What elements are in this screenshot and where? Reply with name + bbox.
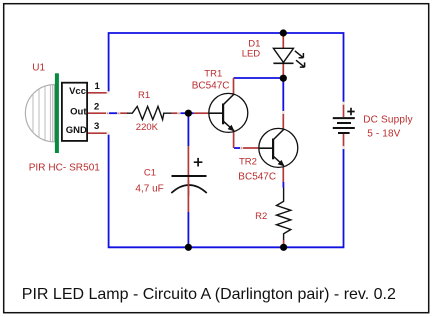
svg-text:1: 1 [95,81,101,92]
svg-text:GND: GND [66,125,87,136]
svg-text:5 - 18V: 5 - 18V [367,129,400,140]
svg-text:Vcc: Vcc [69,86,86,97]
svg-text:PIR HC- SR501: PIR HC- SR501 [29,163,101,174]
svg-text:Out: Out [70,107,87,118]
svg-text:U1: U1 [32,62,45,73]
svg-text:C1: C1 [144,168,156,179]
svg-text:LED: LED [242,48,261,59]
svg-text:TR1: TR1 [204,69,222,80]
svg-text:BC547C: BC547C [238,172,276,183]
svg-text:BC547C: BC547C [192,80,230,91]
svg-text:2: 2 [94,101,99,112]
svg-text:3: 3 [94,121,99,132]
svg-text:4,7 uF: 4,7 uF [135,183,163,194]
svg-text:PIR LED Lamp - Circuito A (Dar: PIR LED Lamp - Circuito A (Darlington pa… [22,286,396,303]
svg-text:R1: R1 [138,90,150,101]
svg-text:TR2: TR2 [239,157,257,168]
svg-text:220K: 220K [136,122,159,133]
svg-text:DC Supply: DC Supply [363,115,413,126]
svg-text:R2: R2 [255,211,267,222]
